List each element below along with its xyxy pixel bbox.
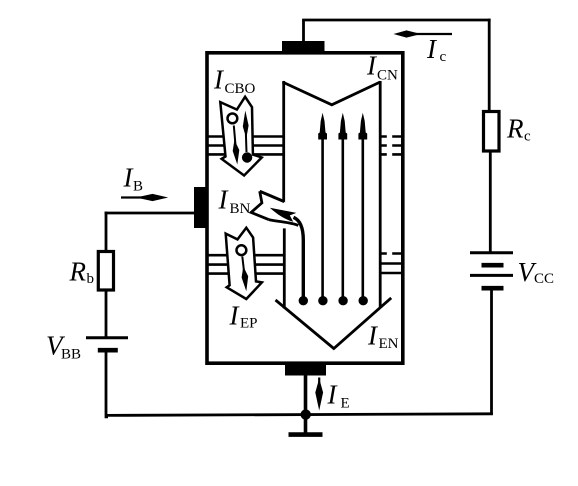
svg-text:CBO: CBO — [225, 81, 256, 97]
ICBO hollow arrow — [220, 97, 261, 176]
svg-text:EN: EN — [379, 336, 399, 352]
hole symbol in IEP — [237, 245, 247, 255]
recombination curved arrow from first dot — [270, 208, 308, 306]
collector contact — [282, 41, 325, 55]
wire emitter down — [304, 374, 308, 434]
transistor body box — [207, 53, 403, 363]
electron flow arrow 2 (up) — [338, 113, 347, 306]
IEP hollow arrow — [226, 228, 262, 299]
collector junction barrier left — [208, 137, 283, 155]
wire left rail upper — [105, 212, 108, 252]
resistor Rc — [484, 112, 500, 152]
electron dot in ICBO — [242, 152, 252, 162]
collector junction barrier right — [381, 137, 401, 155]
wire left rail lower — [106, 350, 108, 417]
svg-text:b: b — [87, 271, 95, 287]
wire right rail upper — [488, 19, 491, 112]
junction node — [301, 409, 311, 419]
wire base horizontal — [105, 212, 196, 215]
electron drift arrow up — [245, 134, 248, 152]
channel right wall — [379, 81, 382, 308]
wire bottom horizontal — [106, 414, 493, 416]
channel bottom V — [276, 298, 392, 349]
hole symbol in ICBO — [228, 114, 238, 124]
battery VCC — [470, 251, 513, 254]
resistor Rb — [98, 252, 113, 291]
channel left wall lower — [283, 228, 286, 308]
svg-text:R: R — [69, 257, 87, 287]
ground — [289, 432, 323, 437]
svg-text:E: E — [341, 396, 350, 412]
svg-text:c: c — [524, 129, 531, 145]
hole drift arrow down — [242, 257, 244, 272]
channel top V — [283, 82, 381, 105]
svg-text:BN: BN — [230, 201, 251, 217]
wire Rc to battery — [489, 151, 492, 252]
wire collector up — [302, 20, 305, 42]
emitter junction barrier left — [208, 255, 284, 273]
hole drift arrow down — [234, 126, 236, 146]
base contact — [194, 187, 208, 228]
electron flow arrow 1 (up) — [318, 113, 327, 306]
svg-text:c: c — [440, 49, 447, 65]
arrow IB — [121, 196, 152, 198]
svg-text:CC: CC — [534, 271, 554, 287]
wire Rb to battery — [105, 290, 108, 338]
wire battery down to bottom — [490, 288, 493, 414]
emitter junction barrier right — [381, 254, 401, 274]
battery VBB — [86, 336, 128, 339]
svg-text:B: B — [133, 179, 143, 195]
svg-text:EP: EP — [240, 316, 258, 332]
svg-text:CN: CN — [377, 68, 398, 84]
svg-text:BB: BB — [61, 347, 81, 363]
emitter contact — [285, 363, 326, 376]
channel left wall upper — [282, 81, 285, 207]
arrow IC — [408, 33, 452, 35]
svg-text:R: R — [506, 114, 524, 144]
wire top horizontal — [302, 19, 491, 22]
arrow IE — [318, 378, 320, 396]
IBN hollow arrow — [251, 191, 298, 225]
electron flow arrow 3 (up) — [358, 113, 368, 306]
